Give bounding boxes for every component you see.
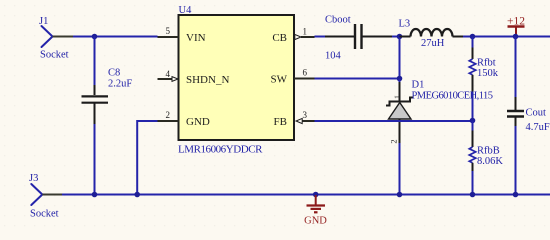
wire Cout top bbox=[515, 37, 517, 98]
pin 5 VIN bbox=[158, 36, 179, 38]
pin 1 CB bbox=[301, 36, 315, 38]
wire node SW to D1 bbox=[399, 79, 401, 83]
wire J1 to VIN bbox=[73, 36, 158, 38]
capacitor Cout bbox=[507, 97, 524, 126]
junction D1/rail bbox=[397, 192, 403, 198]
svg-text:C8: C8 bbox=[108, 68, 120, 79]
power symbol +12 bbox=[508, 27, 525, 37]
wire bottom rail bbox=[62, 194, 550, 196]
pin 4 SHDN_N bbox=[158, 78, 172, 80]
svg-text:+12: +12 bbox=[507, 16, 525, 28]
wire C8 top bbox=[94, 37, 96, 86]
svg-text:150k: 150k bbox=[477, 68, 499, 79]
svg-text:104: 104 bbox=[325, 51, 342, 62]
junction node OUT bbox=[470, 34, 476, 40]
wire SW vertical bbox=[399, 37, 401, 79]
svg-text:CB: CB bbox=[272, 32, 287, 44]
wire GND pin to rail bbox=[137, 121, 157, 195]
svg-text:2.2uF: 2.2uF bbox=[108, 79, 132, 90]
svg-text:D1: D1 bbox=[412, 80, 425, 91]
svg-text:SW: SW bbox=[271, 74, 288, 86]
junction Cout/rail bbox=[513, 192, 519, 198]
junction node SW-top bbox=[397, 34, 403, 40]
wire SW pin to node bbox=[315, 78, 400, 80]
svg-text:SHDN_N: SHDN_N bbox=[186, 74, 229, 86]
wire L3 to node OUT bbox=[463, 36, 550, 38]
svg-text:J3: J3 bbox=[29, 173, 38, 184]
junction node SW bbox=[397, 76, 403, 82]
diode D1 bbox=[386, 82, 414, 143]
svg-text:27uH: 27uH bbox=[421, 38, 445, 49]
junction node +12/Cout bbox=[513, 34, 519, 40]
junction GND-symbol/rail bbox=[313, 192, 319, 198]
pin 3 FB bbox=[302, 120, 315, 122]
connector J3 bbox=[31, 184, 62, 205]
svg-text:U4: U4 bbox=[179, 5, 193, 16]
svg-text:VIN: VIN bbox=[186, 32, 206, 44]
junction node FB bbox=[470, 118, 476, 124]
svg-text:L3: L3 bbox=[399, 19, 411, 30]
resistor RfbB bbox=[469, 121, 475, 195]
capacitor C8 bbox=[82, 85, 109, 124]
ground bbox=[307, 195, 326, 212]
svg-text:Rfbt: Rfbt bbox=[477, 58, 496, 69]
inductor L3 bbox=[400, 29, 464, 37]
svg-text:J1: J1 bbox=[39, 16, 48, 27]
svg-text:1: 1 bbox=[303, 27, 308, 37]
op-amp U4 body bbox=[179, 15, 295, 140]
junction RfbB/rail bbox=[470, 192, 476, 198]
svg-text:2: 2 bbox=[166, 110, 171, 120]
svg-text:Socket: Socket bbox=[40, 50, 69, 61]
svg-text:GND: GND bbox=[304, 216, 327, 227]
wire CB to Cboot bbox=[315, 36, 326, 38]
connector J1 bbox=[42, 26, 74, 47]
wire Cboot to node SW bbox=[392, 36, 400, 38]
wire Rfbt bottom to node FB bbox=[472, 75, 474, 92]
capacitor Cboot bbox=[325, 24, 392, 49]
svg-text:GND: GND bbox=[186, 116, 210, 128]
svg-text:PMEG6010CEH,115: PMEG6010CEH,115 bbox=[412, 91, 493, 102]
svg-text:2: 2 bbox=[389, 139, 399, 143]
svg-text:Socket: Socket bbox=[30, 209, 59, 220]
wire D1 to bottom rail bbox=[399, 143, 401, 195]
pin 2 GND bbox=[158, 120, 179, 122]
svg-text:4: 4 bbox=[166, 69, 171, 79]
svg-text:1: 1 bbox=[393, 95, 402, 99]
svg-text:RfbB: RfbB bbox=[477, 146, 500, 157]
wire C8 bottom bbox=[94, 124, 96, 195]
svg-text:Cout: Cout bbox=[526, 108, 547, 119]
svg-text:LMR16006YDDCR: LMR16006YDDCR bbox=[178, 144, 263, 156]
svg-text:8.06K: 8.06K bbox=[477, 156, 503, 167]
svg-text:Cboot: Cboot bbox=[325, 15, 351, 26]
svg-text:5: 5 bbox=[166, 26, 171, 36]
junction U4-GND/rail bbox=[134, 192, 140, 198]
pin 6 SW bbox=[294, 78, 315, 80]
junction node A (J1/C8) bbox=[92, 34, 98, 40]
svg-text:FB: FB bbox=[274, 116, 287, 128]
svg-text:4.7uF: 4.7uF bbox=[526, 122, 550, 133]
junction C8/rail bbox=[92, 192, 98, 198]
wire Rfbt top bbox=[472, 37, 474, 48]
wire FB pin to divider bbox=[315, 120, 473, 122]
svg-text:6: 6 bbox=[303, 68, 308, 78]
wire Cout bottom bbox=[515, 126, 517, 195]
resistor Rfbt bbox=[469, 59, 475, 75]
svg-text:3: 3 bbox=[303, 110, 308, 120]
